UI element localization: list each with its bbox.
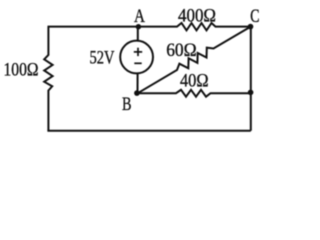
wire node A down to source top	[137, 27, 139, 42]
junction dot 40ohm to right wire	[248, 90, 254, 96]
minus sign inside source	[134, 62, 141, 64]
svg-text:A: A	[134, 6, 145, 27]
wire top with resistor R 400ohm: top-left corner to node C	[48, 23, 251, 30]
svg-text:100Ω: 100Ω	[4, 60, 39, 81]
svg-text:40Ω: 40Ω	[180, 70, 209, 91]
wire left with resistor R 100ohm	[44, 27, 52, 131]
svg-text:B: B	[122, 94, 132, 115]
svg-text:60Ω: 60Ω	[166, 40, 197, 61]
svg-text:52V: 52V	[90, 47, 115, 68]
svg-text:C: C	[250, 6, 259, 27]
wire right: node C down to bottom-right corner	[250, 27, 252, 131]
plus sign inside source	[134, 48, 142, 64]
node C junction dot	[248, 24, 254, 30]
node B junction dot	[134, 90, 140, 96]
svg-text:400Ω: 400Ω	[178, 5, 216, 26]
wire diagonal B to C with resistor R 60ohm	[138, 27, 251, 94]
wire source bottom down to node B	[137, 73, 139, 93]
wire B to right with resistor R 40ohm	[138, 90, 251, 97]
node A junction dot	[136, 24, 141, 29]
wire bottom	[47, 130, 250, 132]
voltage source V1 52V circle	[120, 41, 153, 74]
